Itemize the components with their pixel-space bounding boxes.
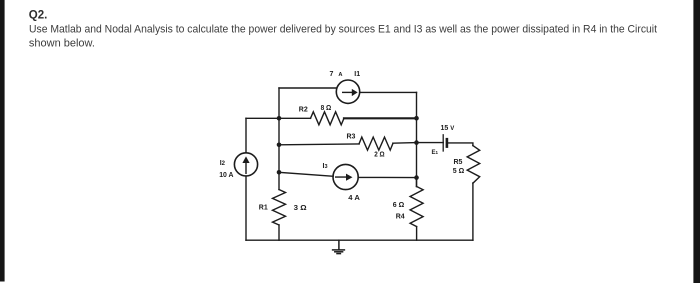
label 2 ohm	[374, 152, 385, 159]
wire: R2 row left segment	[279, 117, 311, 119]
svg-text:A: A	[338, 72, 342, 78]
battery E1 long plate	[442, 135, 444, 151]
svg-text:I3: I3	[323, 163, 328, 170]
label 8 ohm	[321, 105, 332, 112]
ground symbol	[333, 240, 345, 253]
wire: R4 top stub	[416, 178, 418, 187]
wire: bottom rail	[246, 239, 473, 241]
svg-text:I1: I1	[354, 71, 360, 78]
current source I1 circle	[336, 80, 359, 103]
battery E1 short plate	[446, 139, 449, 146]
wire: top loop left horizontal to I1	[279, 87, 337, 89]
wire: I3 row right segment	[358, 176, 416, 178]
label R5	[454, 159, 463, 166]
label R1	[259, 205, 268, 212]
svg-text:4 A: 4 A	[348, 195, 360, 202]
svg-text:7: 7	[330, 71, 334, 78]
label 4 A of I3	[348, 195, 360, 202]
svg-text:10 A: 10 A	[219, 172, 233, 179]
resistor R2 (8 ohm) zigzag	[311, 112, 345, 125]
resistor R3 (2 ohm) zigzag	[359, 137, 393, 150]
svg-text:3 Ω: 3 Ω	[294, 205, 307, 212]
junction node: bus/I3	[277, 170, 282, 175]
junction node: right bus/E1	[414, 140, 419, 145]
svg-text:I2: I2	[220, 160, 226, 167]
wire: I2 branch vertical below source	[245, 176, 247, 240]
label 6 ohm	[393, 202, 405, 209]
junction node: right bus/R2	[414, 116, 419, 121]
svg-text:R1: R1	[259, 205, 268, 212]
current source I3 circle	[333, 164, 358, 189]
wire: main left bus vertical (x=279, top loop corner down to R1)	[278, 88, 280, 190]
current source I2 circle	[234, 153, 257, 176]
junction node: bus/R2	[277, 116, 282, 121]
label R4	[396, 213, 405, 220]
label 5 ohm	[453, 168, 465, 175]
wire: R4 bottom stub	[416, 227, 418, 241]
arrow of I1 (points right)	[342, 89, 358, 96]
svg-text:R5: R5	[454, 159, 463, 166]
svg-text:15 V: 15 V	[441, 125, 455, 132]
label I2	[220, 160, 226, 167]
svg-text:8 Ω: 8 Ω	[321, 105, 332, 112]
label 10 A of I2	[219, 172, 233, 179]
label 7 A of I1	[330, 71, 343, 78]
svg-text:6 Ω: 6 Ω	[393, 202, 405, 209]
wire: E1 to R5 corner	[447, 143, 473, 146]
label R3	[347, 133, 356, 140]
wire: top loop right horizontal from I1 to right bus	[360, 91, 417, 93]
label I1	[354, 71, 360, 78]
svg-text:Use Matlab and Nodal Analysis: Use Matlab and Nodal Analysis to calcula…	[29, 23, 657, 35]
svg-text:shown below.: shown below.	[29, 38, 95, 50]
resistor R4 (6 ohm) zigzag	[410, 187, 423, 227]
right black edge bar	[693, 0, 700, 283]
junction node: right bus/I3	[414, 175, 419, 180]
svg-text:R4: R4	[396, 213, 405, 220]
label 15 V of E1	[441, 125, 455, 132]
label I3	[323, 163, 328, 170]
wire: R1 bottom stub	[278, 225, 280, 240]
left black edge bar	[0, 0, 5, 282]
svg-text:2 Ω: 2 Ω	[374, 152, 385, 159]
arrow of I3 (points right)	[335, 174, 353, 181]
wire: I3 row left segment	[279, 172, 333, 176]
wire: R3 row right segment to E1	[393, 142, 443, 145]
arrow of I2 (points up)	[242, 156, 249, 174]
wire: R5 bottom stub	[472, 183, 474, 240]
junction node: bus/R3	[277, 143, 282, 148]
label 3 ohm	[294, 205, 307, 212]
resistor R5 (5 ohm) zigzag	[467, 146, 480, 184]
resistor R1 (3 ohm) zigzag	[273, 190, 286, 226]
wire: R2 row right segment (thicker)	[344, 117, 417, 119]
wire: R3 row left segment	[279, 143, 359, 146]
label R2	[299, 106, 308, 113]
label E1	[432, 150, 439, 156]
wire: right bus vertical (x=416.5)	[416, 92, 418, 186]
wire: I2 branch horizontal to bus	[246, 117, 279, 119]
svg-text:5 Ω: 5 Ω	[453, 168, 465, 175]
wire: I2 branch vertical above source	[245, 118, 247, 153]
svg-text:R3: R3	[347, 133, 356, 140]
svg-text:R2: R2	[299, 106, 308, 113]
svg-text:Q2.: Q2.	[29, 9, 48, 21]
